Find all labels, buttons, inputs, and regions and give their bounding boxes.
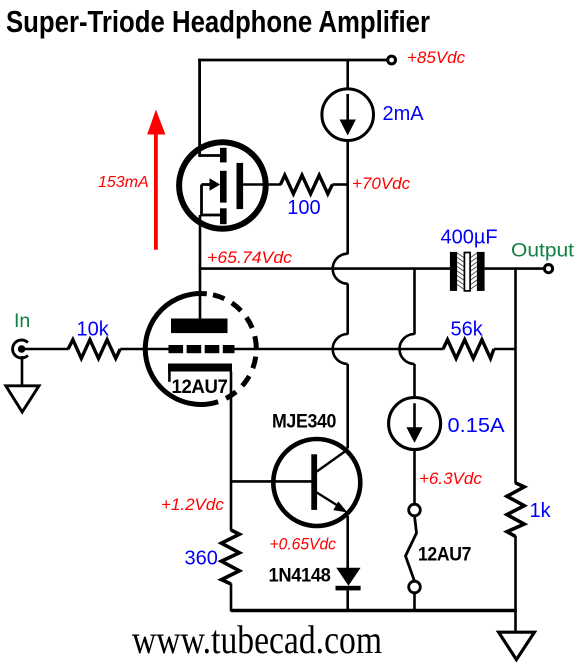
- resistor 360: [221, 530, 239, 584]
- wire top rail +85V: [198, 59, 387, 62]
- wire vertical with hop over output wire: [333, 254, 348, 284]
- svg-text:Output: Output: [511, 239, 575, 261]
- wire emitter to diode: [346, 516, 349, 568]
- svg-text:+6.3Vdc: +6.3Vdc: [419, 469, 482, 488]
- terminal Output: [544, 265, 552, 273]
- wire cathode down: [230, 372, 233, 531]
- wire cap to output terminal: [485, 267, 544, 270]
- current source 0.15A: [389, 398, 441, 450]
- mosfet Q1: [179, 142, 266, 229]
- svg-text:0.15A: 0.15A: [448, 415, 506, 437]
- svg-text:1N4148: 1N4148: [269, 565, 332, 587]
- wire left drop from rail to MOSFET drain: [198, 59, 201, 157]
- resistor 100: [281, 175, 333, 194]
- svg-text:+0.65Vdc: +0.65Vdc: [270, 535, 337, 554]
- resistor 56k: [443, 340, 494, 359]
- wire hop over grid wire: [333, 334, 348, 364]
- transistor Q2 MJE340: [272, 411, 360, 527]
- svg-text:153mA: 153mA: [98, 174, 149, 191]
- wire MOSFET source down to 65.74V node: [199, 215, 202, 270]
- wire jack to 10k: [23, 348, 69, 351]
- svg-text:56k: 56k: [451, 318, 484, 340]
- svg-text:360: 360: [185, 548, 218, 570]
- svg-text:10k: 10k: [77, 318, 110, 340]
- svg-text:Super-Triode Headphone Amplifi: Super-Triode Headphone Amplifier: [6, 4, 430, 39]
- tube V1 12AU7: [145, 269, 256, 405]
- heater wire 12AU7: [406, 516, 417, 581]
- svg-text:www.tubecad.com: www.tubecad.com: [132, 617, 382, 662]
- wire +65.74V node horizontal: [200, 267, 450, 270]
- svg-text:1k: 1k: [530, 500, 552, 522]
- heater pin circle bottom: [409, 581, 421, 593]
- svg-text:In: In: [14, 310, 30, 332]
- wire diode to rail: [346, 590, 349, 611]
- terminal +85Vdc: [388, 56, 396, 64]
- capacitor C1 400uF: [450, 252, 485, 291]
- svg-text:MJE340: MJE340: [272, 411, 337, 433]
- wire 2mA source to +70V node: [346, 141, 349, 255]
- wire base lead: [231, 480, 312, 483]
- svg-text:100: 100: [287, 197, 320, 219]
- wire hop over grid wire: [400, 334, 415, 364]
- wire to 0.15A source: [413, 364, 416, 398]
- wire jack to ground: [21, 356, 24, 386]
- wire source to heater: [413, 450, 416, 505]
- wire 100 to node: [332, 183, 347, 186]
- wire rail to 2mA source: [346, 60, 349, 90]
- svg-text:2mA: 2mA: [383, 103, 425, 125]
- wire hop to collector: [346, 364, 349, 449]
- wire 360 to rail: [230, 584, 233, 612]
- wire heater to rail: [413, 593, 416, 611]
- svg-text:400µF: 400µF: [441, 226, 498, 248]
- wire output node drop: [413, 269, 416, 335]
- svg-text:+1.2Vdc: +1.2Vdc: [161, 495, 224, 514]
- wire 10k to grid: [120, 348, 168, 351]
- ground right: [499, 632, 535, 659]
- wire grid right to 56k: [235, 348, 444, 351]
- arrow 153mA red: [154, 131, 158, 250]
- wire output right branch down: [514, 269, 517, 484]
- input jack: [13, 340, 28, 358]
- svg-text:12AU7: 12AU7: [172, 376, 228, 398]
- current source 2mA: [322, 89, 374, 141]
- wire gate lead: [243, 183, 281, 186]
- resistor 1k: [507, 483, 524, 537]
- diode D1 1N4148: [336, 568, 361, 591]
- svg-text:+65.74Vdc: +65.74Vdc: [207, 248, 293, 267]
- svg-text:+70Vdc: +70Vdc: [352, 174, 411, 193]
- ground input: [6, 386, 39, 412]
- wire between hops: [346, 284, 349, 335]
- svg-text:+85Vdc: +85Vdc: [407, 48, 466, 67]
- wire bottom rail: [231, 609, 517, 612]
- wire 56k to output branch: [494, 348, 516, 351]
- svg-text:12AU7: 12AU7: [418, 544, 471, 566]
- resistor 10k: [68, 340, 120, 359]
- heater pin circle top: [409, 504, 421, 516]
- wire 1k to ground: [514, 536, 517, 633]
